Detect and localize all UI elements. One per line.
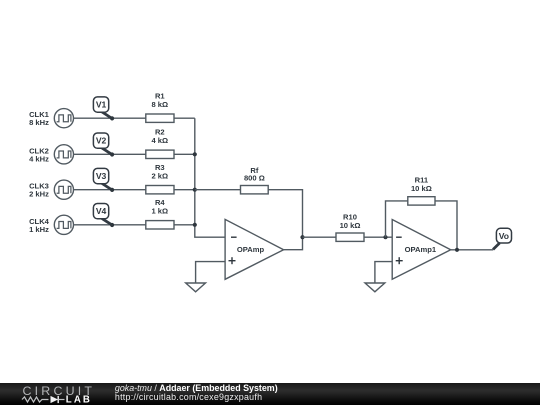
- junction dot at V1: [110, 116, 114, 120]
- svg-text:8 kΩ: 8 kΩ: [151, 100, 168, 109]
- svg-text:8 kHz: 8 kHz: [29, 118, 49, 127]
- svg-text:http://circuitlab.com/cexe9gzx: http://circuitlab.com/cexe9gzxpaufh: [115, 392, 262, 402]
- junction node bus row4: [193, 223, 197, 227]
- svg-text:2 kHz: 2 kHz: [29, 190, 49, 199]
- wire output node to R10: [303, 236, 337, 238]
- svg-text:4 kΩ: 4 kΩ: [151, 136, 168, 145]
- svg-text:V1: V1: [96, 100, 107, 110]
- resistor R10 10 kΩ: [336, 233, 364, 241]
- wire CLK1 to R1: [74, 117, 146, 119]
- wire R4 to summing bus: [174, 224, 195, 226]
- voltmeter probe V2: [101, 147, 112, 154]
- square-wave voltage source CLK3: [54, 180, 73, 199]
- op-amp OPAmp: [225, 219, 284, 279]
- junction dot at V3: [110, 188, 114, 192]
- square-wave voltage source CLK1: [54, 109, 73, 128]
- junction node output/feedback: [455, 248, 459, 252]
- ground: [186, 283, 206, 292]
- wire bus to Rf: [195, 189, 241, 191]
- voltmeter probe V3: [101, 183, 112, 190]
- junction dot at V4: [110, 223, 114, 227]
- op-amp OPAmp1: [392, 220, 451, 280]
- resistor R3 2 kΩ: [146, 186, 174, 194]
- svg-text:10 kΩ: 10 kΩ: [340, 221, 361, 230]
- wire CLK4 to R4: [74, 224, 146, 226]
- svg-text:4 kHz: 4 kHz: [29, 154, 49, 163]
- resistor R4 1 kΩ: [146, 221, 174, 229]
- svg-text:OPAmp: OPAmp: [237, 245, 265, 254]
- svg-text:2 kΩ: 2 kΩ: [151, 171, 168, 180]
- junction node R11 tap: [383, 235, 387, 239]
- resistor R2 4 kΩ: [146, 150, 174, 158]
- svg-text:Vo: Vo: [499, 231, 509, 241]
- voltmeter probe V1: [101, 111, 112, 118]
- wire OPAmp1 non-inverting input to ground: [375, 262, 392, 283]
- square-wave voltage source CLK2: [54, 145, 73, 164]
- wire R3 to summing bus: [174, 189, 195, 191]
- svg-text:OPAmp1: OPAmp1: [405, 245, 437, 254]
- svg-text:LAB: LAB: [66, 395, 92, 405]
- junction node bus row2: [193, 152, 197, 156]
- CircuitLab logo resistor-diode glyph: [22, 397, 49, 402]
- wire OPAmp1 output to Vo: [451, 249, 493, 251]
- resistor R11 10 kΩ: [408, 197, 435, 205]
- wire R11 feedback right leg: [435, 201, 457, 250]
- wire R11 feedback left leg: [386, 201, 408, 237]
- wire Rf to output node: [268, 190, 302, 250]
- svg-text:V2: V2: [96, 136, 107, 146]
- wire CLK3 to R3: [74, 189, 146, 191]
- junction dot at V2: [110, 152, 114, 156]
- footer bar: [0, 383, 540, 405]
- wire summing bus vertical: [195, 118, 225, 237]
- resistor R1 8 kΩ: [146, 114, 174, 122]
- wire R10 to OPAmp1 inverting input: [364, 236, 392, 238]
- ground: [365, 283, 385, 292]
- svg-text:1 kHz: 1 kHz: [29, 225, 49, 234]
- svg-text:V4: V4: [96, 206, 107, 216]
- square-wave voltage source CLK4: [54, 215, 73, 234]
- wire R2 to summing bus: [174, 153, 195, 155]
- svg-text:1 kΩ: 1 kΩ: [151, 207, 168, 216]
- resistor Rf 800 Ω: [241, 186, 269, 194]
- voltmeter probe Vo: [493, 243, 500, 250]
- svg-text:800 Ω: 800 Ω: [244, 173, 265, 182]
- svg-text:10 kΩ: 10 kΩ: [411, 184, 432, 193]
- junction node feedback/R10: [300, 235, 304, 239]
- wire CLK2 to R2: [74, 153, 146, 155]
- voltmeter probe V4: [101, 218, 112, 225]
- wire R1 to summing bus: [174, 117, 195, 119]
- wire OPAmp non-inverting input to ground: [196, 262, 226, 283]
- svg-text:V3: V3: [96, 171, 107, 181]
- junction node bus row3: [193, 188, 197, 192]
